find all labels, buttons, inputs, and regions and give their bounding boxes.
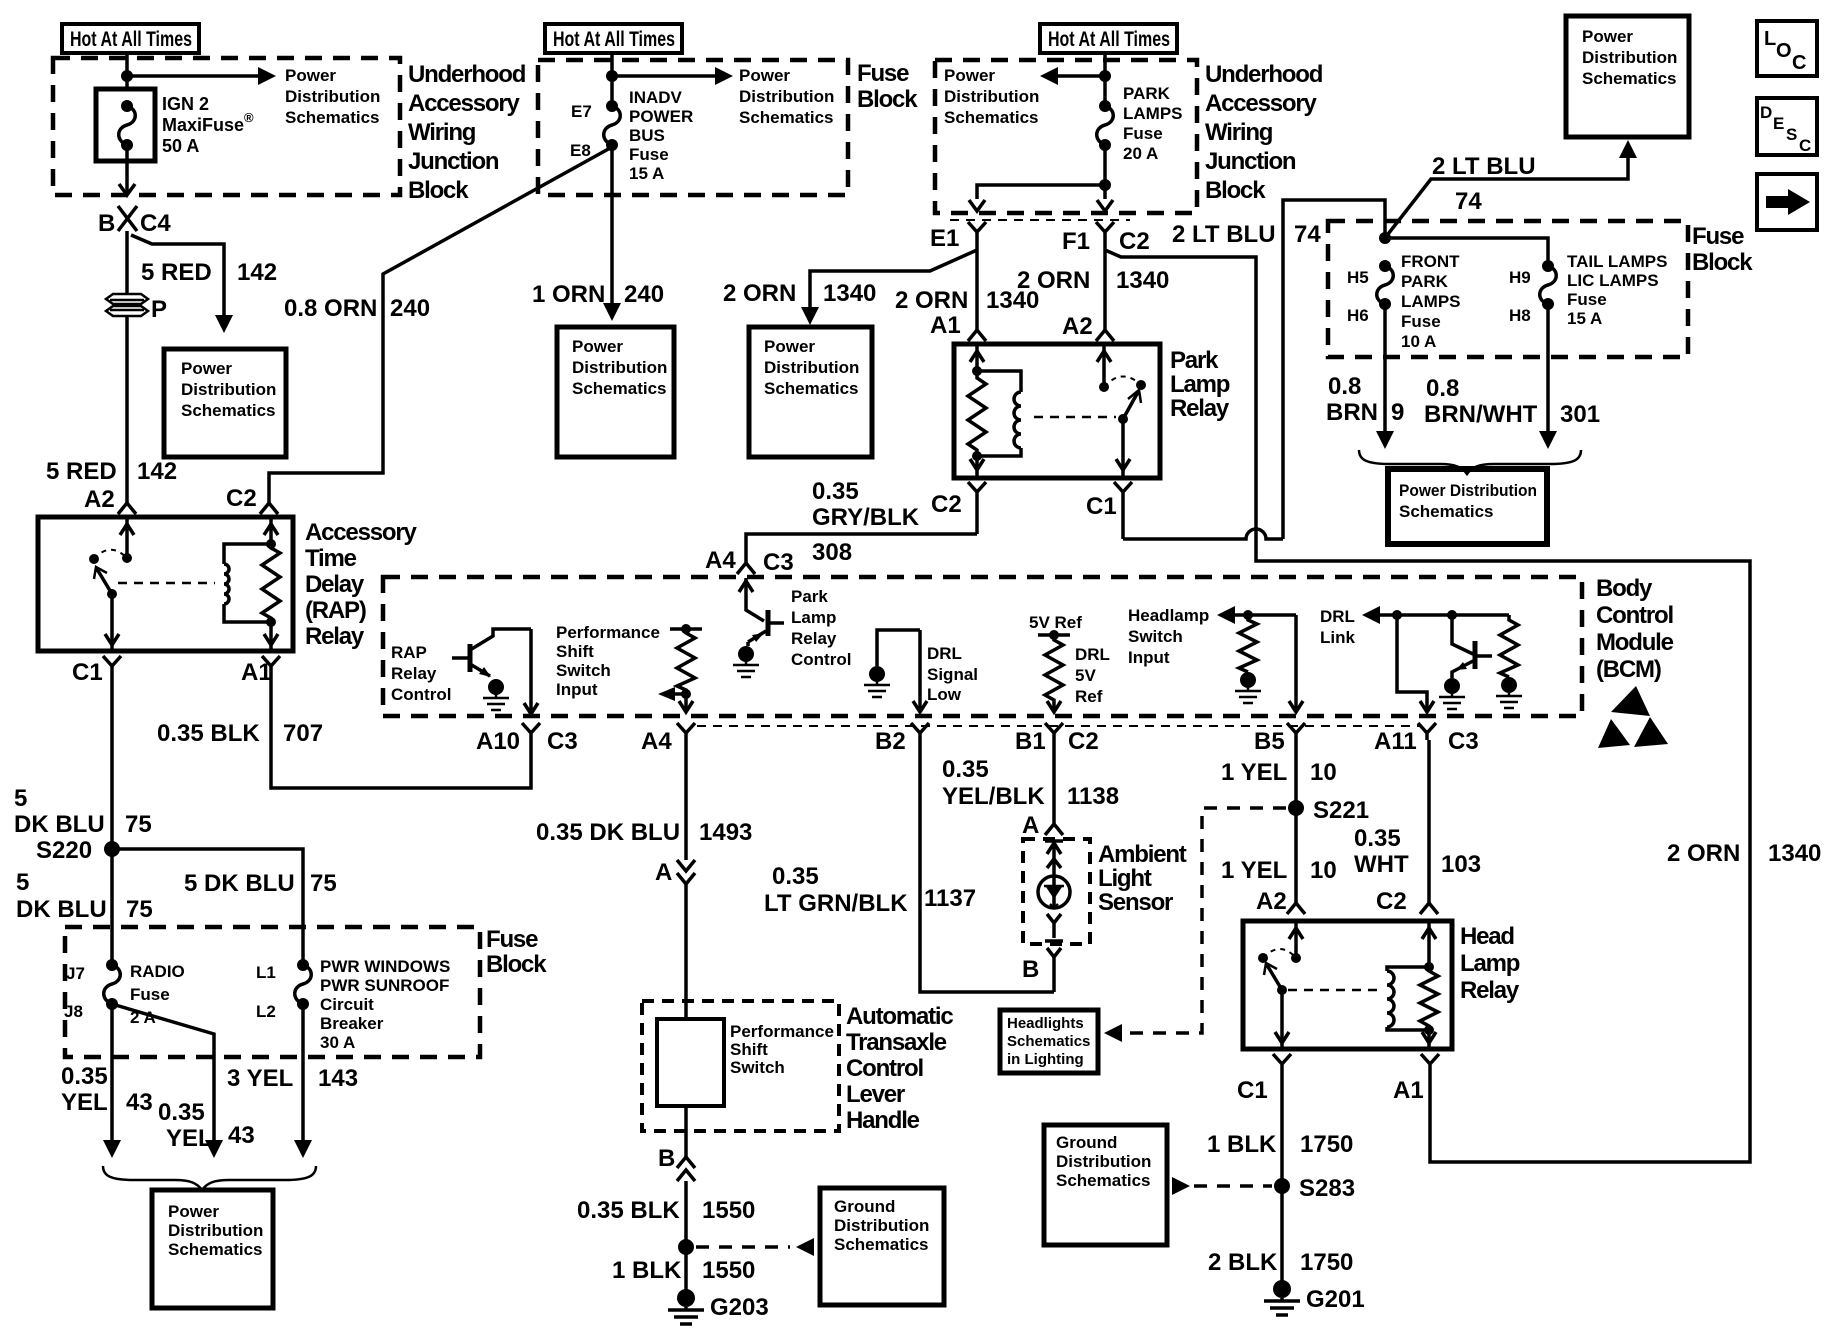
wire 0.8 ORN 240 diagonal from E8 to RAP relay C2 — [269, 147, 612, 503]
wire park lamps fuse output split to E1 and F1 — [969, 145, 1113, 211]
svg-text:B1: B1 — [1015, 728, 1046, 755]
svg-text:Park: Park — [791, 587, 828, 606]
svg-text:C4: C4 — [140, 210, 171, 237]
svg-text:Distribution: Distribution — [168, 1221, 263, 1240]
wire coil low side to A1 — [1422, 1025, 1436, 1049]
svg-text:B: B — [98, 210, 115, 237]
svg-text:Ref: Ref — [1075, 687, 1103, 706]
wire A2 entry to switch common — [120, 517, 134, 563]
svg-text:5V: 5V — [1075, 666, 1096, 685]
svg-text:B: B — [1022, 956, 1039, 983]
label 0.8 BRN 9 — [1326, 373, 1404, 426]
connector A of ambient light sensor — [1022, 812, 1063, 839]
svg-text:H5: H5 — [1347, 268, 1369, 287]
svg-text:Block: Block — [408, 177, 469, 204]
resistor (DRL 5V ref) — [1045, 635, 1063, 712]
svg-text:43: 43 — [228, 1122, 255, 1149]
svg-text:H8: H8 — [1509, 306, 1531, 325]
label 0.35 YEL/BLK 1138 — [942, 756, 1119, 810]
svg-text:INADV: INADV — [629, 88, 683, 107]
relay K2 Park Lamp Relay box — [954, 344, 1160, 478]
wire from performance shift switch B — [684, 1106, 688, 1158]
wire coil low side to C2 — [970, 451, 984, 476]
svg-text:D: D — [1760, 103, 1772, 122]
svg-text:2 ORN: 2 ORN — [723, 280, 796, 307]
svg-text:YEL/BLK: YEL/BLK — [942, 783, 1045, 810]
ground (headlamp switch input) — [1235, 672, 1261, 703]
label Park Lamp Relay — [1170, 347, 1230, 422]
svg-text:Control: Control — [391, 685, 451, 704]
svg-text:1 ORN: 1 ORN — [532, 281, 605, 308]
svg-text:Ambient: Ambient — [1098, 841, 1187, 868]
svg-text:in Lighting: in Lighting — [1007, 1051, 1084, 1068]
connector A of performance shift switch — [655, 859, 695, 886]
svg-text:C3: C3 — [763, 549, 794, 576]
label 0.35 YEL 43 (second) — [158, 1099, 255, 1152]
svg-text:Switch: Switch — [556, 661, 611, 680]
svg-text:Headlights: Headlights — [1007, 1015, 1084, 1032]
svg-text:Switch: Switch — [1128, 627, 1183, 646]
underhood accessory wiring junction block (right) dashed box — [935, 60, 1197, 213]
svg-text:1 BLK: 1 BLK — [1207, 1131, 1277, 1158]
svg-text:Shift: Shift — [730, 1040, 768, 1059]
svg-text:Distribution: Distribution — [944, 87, 1039, 106]
label Underhood Accessory Wiring Junction Block (left) — [408, 61, 526, 204]
wire 2 ORN 1340 from F1/C2 down to park lamp relay A2 — [1103, 250, 1107, 330]
wire arrow to Power Distribution Schematics (left box) — [127, 67, 276, 85]
svg-text:Power: Power — [739, 66, 790, 85]
svg-text:Wiring: Wiring — [1205, 119, 1273, 146]
svg-text:Fuse: Fuse — [486, 926, 538, 953]
wire ignition feed down to splice P — [125, 231, 129, 294]
wire 2 ORN 1340 from E1 to power distribution box — [801, 250, 977, 325]
label 0.35 YEL 43 (first) — [61, 1063, 153, 1116]
label 2 ORN 1340 (to schematics box) — [723, 280, 876, 307]
svg-text:A4: A4 — [641, 728, 672, 755]
mechanical link blade to coil — [1288, 989, 1380, 992]
svg-text:30 A: 30 A — [320, 1033, 355, 1052]
svg-text:5: 5 — [14, 785, 27, 812]
wire headlamp switch input to B5 — [1289, 615, 1303, 712]
svg-text:BRN: BRN — [1326, 399, 1378, 426]
svg-text:Sensor: Sensor — [1098, 889, 1173, 916]
svg-text:O: O — [1776, 40, 1792, 62]
svg-text:DK BLU: DK BLU — [16, 896, 107, 923]
svg-text:Schematics: Schematics — [1007, 1033, 1090, 1050]
label FRONT PARK LAMPS Fuse 10 A — [1401, 252, 1461, 351]
svg-text:Delay: Delay — [305, 571, 365, 598]
wire C2 entry to coil — [264, 517, 278, 549]
svg-text:1750: 1750 — [1300, 1131, 1353, 1158]
svg-text:20 A: 20 A — [1123, 144, 1158, 163]
wire arrow to Power Distribution Schematics (right junction block) — [1040, 67, 1105, 85]
transistor Q1 RAP relay control driver — [452, 629, 531, 677]
svg-text:1550: 1550 — [702, 1257, 755, 1284]
svg-text:DK BLU: DK BLU — [14, 811, 105, 838]
svg-text:C1: C1 — [72, 659, 103, 686]
wire 2 ORN 1340 from E1 down to park lamp relay A1 — [975, 250, 979, 330]
svg-text:Distribution: Distribution — [739, 87, 834, 106]
wire C1 of park lamp relay to fuse block (hop over 2 ORN) — [1123, 529, 1283, 539]
svg-text:(RAP): (RAP) — [305, 597, 366, 624]
svg-text:3 YEL: 3 YEL — [227, 1065, 293, 1092]
svg-text:Junction: Junction — [408, 148, 499, 175]
svg-text:A10: A10 — [476, 728, 520, 755]
svg-text:74: 74 — [1455, 188, 1482, 215]
svg-text:143: 143 — [318, 1065, 358, 1092]
svg-text:10: 10 — [1310, 857, 1337, 884]
svg-text:A: A — [655, 859, 672, 886]
svg-text:FRONT: FRONT — [1401, 252, 1460, 271]
label 5 DK BLU 75 (branch) — [184, 870, 337, 897]
svg-text:LT GRN/BLK: LT GRN/BLK — [764, 890, 908, 917]
wire fuse output to junction block edge — [119, 145, 135, 195]
junction dot — [121, 70, 133, 82]
wire 0.35 YEL 43 from J8 diagonal branch — [112, 1004, 223, 1158]
wire 0.35 LT GRN/BLK 1137 from B2 down and over to sensor B — [920, 740, 1054, 992]
transistor Q2 park lamp relay control driver — [739, 578, 784, 642]
splice S220 — [36, 837, 120, 864]
svg-text:Power: Power — [285, 66, 336, 85]
node Hot At All Times (right) — [1040, 24, 1177, 53]
dashed reference wire from ground distribution schematics to S283 — [1172, 1177, 1272, 1195]
svg-text:Schematics: Schematics — [1056, 1171, 1151, 1190]
svg-text:1493: 1493 — [699, 819, 752, 846]
svg-text:Schematics: Schematics — [572, 379, 667, 398]
svg-text:LAMPS: LAMPS — [1123, 104, 1183, 123]
svg-text:A1: A1 — [1393, 1077, 1424, 1104]
svg-text:Schematics: Schematics — [739, 108, 834, 127]
svg-text:®: ® — [244, 110, 254, 125]
switch travel arc — [1263, 949, 1296, 958]
svg-text:Distribution: Distribution — [572, 358, 667, 377]
connector B of performance shift switch — [658, 1145, 695, 1181]
label 1 YEL 10 (above S221) — [1221, 759, 1337, 786]
wire performance shift switch input to A4 — [679, 694, 693, 712]
svg-text:Input: Input — [1128, 648, 1170, 667]
label 0.8 ORN 240 — [284, 295, 430, 322]
connector E1 — [930, 222, 986, 252]
connector A10 / C3 at BCM — [476, 723, 578, 755]
switch blade — [1118, 390, 1141, 424]
svg-text:Distribution: Distribution — [834, 1216, 929, 1235]
svg-text:0.35 BLK: 0.35 BLK — [577, 1197, 680, 1224]
ground G203 — [668, 1289, 769, 1324]
svg-text:75: 75 — [125, 811, 152, 838]
splice S283 — [1274, 1175, 1355, 1202]
DRL link sense arrow and rail — [1362, 606, 1509, 624]
wire 0.35 BLK 1550 to splice — [684, 1181, 688, 1247]
node forward arrow legend box — [1757, 174, 1817, 230]
svg-text:5 DK BLU: 5 DK BLU — [184, 870, 295, 897]
svg-text:Headlamp: Headlamp — [1128, 606, 1209, 625]
wire to performance shift switch — [684, 884, 688, 1019]
svg-text:L2: L2 — [256, 1002, 276, 1021]
svg-text:142: 142 — [237, 259, 277, 286]
svg-text:Performance: Performance — [556, 623, 660, 642]
svg-text:5V Ref: 5V Ref — [1029, 613, 1082, 632]
svg-text:(BCM): (BCM) — [1596, 656, 1661, 683]
svg-text:E: E — [1773, 114, 1784, 133]
svg-text:A: A — [1022, 812, 1039, 839]
svg-text:Accessory: Accessory — [305, 519, 417, 546]
dashed reference wire from S221 to headlights schematics — [1104, 808, 1286, 1042]
label Underhood Accessory Wiring Junction Block (right) — [1205, 61, 1323, 204]
label 5 RED 142 (lower) — [46, 458, 177, 485]
svg-text:Schematics: Schematics — [834, 1235, 929, 1254]
svg-text:Accessory: Accessory — [408, 90, 520, 117]
svg-text:Shift: Shift — [556, 642, 594, 661]
svg-text:P: P — [151, 296, 167, 323]
svg-text:Hot At All Times: Hot At All Times — [553, 28, 675, 51]
svg-text:RADIO: RADIO — [130, 962, 185, 981]
brace grouping the three feeds — [103, 1166, 316, 1190]
connector A2 of park lamp relay — [1062, 313, 1114, 341]
resistor (park lamp relay coil suppression) — [968, 371, 986, 456]
svg-text:PWR SUNROOF: PWR SUNROOF — [320, 976, 449, 995]
switch travel arc — [94, 550, 127, 559]
svg-text:5 RED: 5 RED — [141, 259, 212, 286]
svg-text:Module: Module — [1596, 629, 1674, 656]
resistor (headlamp switch input) — [1239, 615, 1257, 672]
svg-text:IGN 2: IGN 2 — [162, 94, 209, 114]
label 1 BLK 1750 — [1207, 1131, 1353, 1158]
connector A1 of park lamp relay — [930, 312, 986, 341]
svg-text:Fuse: Fuse — [1123, 124, 1163, 143]
wire 2 LT BLU 74 from park lamp relay C1 up to fuse block feed — [1283, 200, 1385, 539]
svg-text:15 A: 15 A — [629, 164, 664, 183]
svg-text:Fuse: Fuse — [1567, 290, 1607, 309]
svg-text:0.35: 0.35 — [1354, 825, 1401, 852]
svg-text:DRL: DRL — [927, 644, 962, 663]
wire arrow to Power Distribution Schematics (middle) — [612, 67, 733, 85]
svg-text:Underhood: Underhood — [1205, 61, 1323, 88]
label RAP Relay Control — [391, 643, 451, 704]
ground (DRL signal low) — [864, 630, 920, 697]
svg-text:Schematics: Schematics — [285, 108, 380, 127]
svg-text:1 BLK: 1 BLK — [612, 1257, 682, 1284]
wire 0.35 BLK 707 from A1 to BCM A10 — [271, 690, 531, 788]
svg-text:H6: H6 — [1347, 306, 1369, 325]
svg-text:Junction: Junction — [1205, 148, 1296, 175]
svg-text:Input: Input — [556, 680, 598, 699]
svg-text:Fuse: Fuse — [1692, 223, 1744, 250]
node Hot At All Times (middle) — [545, 24, 682, 53]
wire from Hot At All Times into fuse block — [610, 53, 614, 106]
fuse block (right) dashed box — [1328, 221, 1688, 357]
fuse TAIL LAMPS LIC LAMPS 15 A pins H9 H8 — [1509, 260, 1556, 325]
svg-text:Power: Power — [764, 337, 815, 356]
label Fuse Block (middle top) — [857, 60, 918, 113]
svg-text:C3: C3 — [547, 728, 578, 755]
svg-text:Power: Power — [572, 337, 623, 356]
BCM connector face line — [697, 725, 1421, 727]
svg-text:74: 74 — [1294, 221, 1321, 248]
connector A2 of head lamp relay — [1256, 888, 1305, 915]
svg-text:2 ORN: 2 ORN — [895, 287, 968, 314]
underhood accessory wiring junction block (left) dashed box — [53, 58, 400, 195]
svg-text:S283: S283 — [1299, 1175, 1355, 1202]
mechanical link blade to coil — [118, 582, 215, 585]
svg-text:Switch: Switch — [730, 1058, 785, 1077]
svg-text:Schematics: Schematics — [764, 379, 859, 398]
svg-text:0.8: 0.8 — [1328, 373, 1361, 400]
svg-text:L: L — [1764, 28, 1776, 50]
svg-text:Circuit: Circuit — [320, 995, 374, 1014]
svg-text:RAP: RAP — [391, 643, 427, 662]
label 0.8 BRN/WHT 301 — [1424, 375, 1600, 428]
svg-text:0.35: 0.35 — [61, 1063, 108, 1090]
node Hot At All Times (left) — [62, 24, 199, 53]
svg-text:C2: C2 — [226, 485, 257, 512]
svg-text:1750: 1750 — [1300, 1249, 1353, 1276]
wire from Hot At All Times into junction block — [1103, 53, 1107, 106]
label Park Lamp Relay Control — [791, 587, 851, 669]
label 2 LT BLU 74 (left of fuse block) — [1172, 221, 1321, 248]
svg-text:J7: J7 — [66, 964, 85, 983]
svg-text:1137: 1137 — [924, 885, 976, 912]
label INADV POWER BUS Fuse 15 A — [629, 88, 693, 183]
svg-text:1340: 1340 — [1116, 267, 1169, 294]
svg-text:Power: Power — [1582, 27, 1633, 46]
wire from Hot At All Times into junction block — [125, 53, 129, 89]
dashed reference wire to ground distribution schematics (left) — [696, 1238, 814, 1256]
svg-text:E1: E1 — [930, 225, 959, 252]
svg-text:Relay: Relay — [791, 629, 837, 648]
ground (park lamp driver emitter) — [733, 642, 759, 677]
junction dot — [606, 70, 618, 82]
svg-text:Automatic: Automatic — [846, 1003, 953, 1030]
connector C4 pin B inline connector — [98, 206, 171, 237]
svg-text:Underhood: Underhood — [408, 61, 526, 88]
svg-text:S: S — [1786, 125, 1797, 144]
power distribution schematics box (bottom left) — [152, 1190, 273, 1308]
fuse F1 IGN 2 MaxiFuse 50 A — [96, 89, 155, 161]
svg-text:J8: J8 — [64, 1002, 83, 1021]
node LOC legend box — [1757, 21, 1817, 76]
svg-text:103: 103 — [1441, 851, 1481, 878]
svg-text:Control: Control — [846, 1055, 923, 1082]
switch S1 Performance Shift Switch (dashed housing) — [642, 1001, 839, 1131]
svg-text:Schematics: Schematics — [1582, 69, 1677, 88]
coil (RAP relay winding) — [224, 544, 271, 622]
svg-text:Wiring: Wiring — [408, 119, 476, 146]
label DRL 5V Ref — [1075, 645, 1110, 706]
svg-text:A4: A4 — [705, 547, 736, 574]
ground distribution schematics box (right) — [1044, 1125, 1167, 1245]
svg-text:707: 707 — [283, 720, 323, 747]
label 5 RED 142 (upper) — [141, 259, 277, 286]
svg-text:Relay: Relay — [391, 664, 437, 683]
power distribution schematics box (below 240) — [557, 327, 674, 457]
svg-text:LAMPS: LAMPS — [1401, 292, 1461, 311]
svg-text:G203: G203 — [710, 1294, 769, 1321]
svg-text:Block: Block — [1205, 177, 1266, 204]
wire 2 BLK 1750 from S283 to G201 — [1280, 1186, 1284, 1281]
wire 5 RED 142 down to RAP relay A2 — [125, 316, 129, 503]
svg-text:C1: C1 — [1086, 493, 1117, 520]
splice junction to ground distribution — [678, 1239, 694, 1255]
label Headlamp Switch Input — [1128, 606, 1209, 667]
svg-text:S220: S220 — [36, 837, 92, 864]
svg-text:Control: Control — [791, 650, 851, 669]
label 2 ORN 1340 (right side) — [1667, 840, 1821, 867]
relay K3 Head Lamp Relay box — [1243, 921, 1452, 1049]
svg-text:Transaxle: Transaxle — [846, 1029, 947, 1056]
svg-text:B2: B2 — [875, 728, 906, 755]
wire 2 LT BLU 74 branch to power distribution schematics (top right) — [1385, 140, 1637, 238]
label 0.35 GRY/BLK 308 — [812, 478, 920, 566]
transistor Q3 DRL link driver — [1452, 615, 1492, 678]
node 5V Ref rail — [1029, 613, 1082, 640]
svg-text:H9: H9 — [1509, 268, 1531, 287]
photodiode sensor element — [1038, 841, 1070, 992]
wire DRL signal low to B2 — [913, 630, 927, 712]
switch contact dot — [1258, 953, 1268, 963]
wire 1 BLK 1750 from C1 to S283 — [1280, 1090, 1284, 1186]
resistor (RAP relay coil suppression) — [262, 544, 280, 622]
switch blade — [94, 567, 117, 599]
svg-text:75: 75 — [310, 870, 337, 897]
wire 0.35 GRY/BLK 308 from C2 to BCM A4 — [746, 534, 977, 563]
label 2 ORN 1340 (at A2) — [1017, 267, 1169, 294]
svg-text:Schematics: Schematics — [1399, 502, 1494, 521]
headlamp switch input sense arrow and node — [1217, 606, 1296, 624]
svg-text:Ground: Ground — [1056, 1133, 1117, 1152]
svg-text:1138: 1138 — [1067, 783, 1119, 810]
svg-text:Hot At All Times: Hot At All Times — [1048, 28, 1170, 51]
svg-text:C1: C1 — [1237, 1077, 1268, 1104]
label 1 YEL 10 (below S221) — [1221, 857, 1337, 884]
wire 1 ORN 240 down to power distribution — [603, 145, 621, 321]
svg-text:240: 240 — [390, 295, 430, 322]
fuse PARK LAMPS 20 A — [1097, 100, 1114, 151]
connector B1 / C2 at BCM — [1015, 723, 1099, 755]
svg-text:Fuse: Fuse — [130, 985, 170, 1004]
wire 3 YEL 143 from L2 — [294, 1004, 312, 1158]
svg-text:S221: S221 — [1313, 797, 1369, 824]
label 5 DK BLU 75 (above S220) — [14, 785, 152, 838]
svg-text:BRN/WHT: BRN/WHT — [1424, 401, 1538, 428]
connector A1 of head lamp relay — [1393, 1054, 1439, 1104]
svg-text:MaxiFuse: MaxiFuse — [162, 115, 244, 135]
svg-text:2 LT BLU: 2 LT BLU — [1432, 153, 1536, 180]
switch contact dot — [89, 554, 99, 564]
svg-text:C2: C2 — [1068, 728, 1099, 755]
label 0.35 BLK 1550 — [577, 1197, 755, 1224]
splice P pass-through grommet — [106, 294, 167, 323]
connector C1 of park lamp relay — [1086, 482, 1132, 539]
svg-text:1 YEL: 1 YEL — [1221, 759, 1287, 786]
ground (DRL link transistor) — [1439, 678, 1465, 709]
svg-text:Fuse: Fuse — [857, 60, 909, 87]
splice S221 — [1288, 797, 1369, 824]
svg-text:Block: Block — [486, 951, 547, 978]
ground distribution schematics box (middle) — [820, 1188, 944, 1305]
svg-text:DRL: DRL — [1075, 645, 1110, 664]
svg-text:A2: A2 — [1062, 313, 1093, 340]
svg-text:Power Distribution: Power Distribution — [1399, 481, 1537, 500]
svg-text:Distribution: Distribution — [181, 380, 276, 399]
ground G201 — [1264, 1280, 1365, 1315]
fuse block (bottom left) dashed box — [65, 927, 480, 1057]
wire RAP relay control output to A10 — [524, 629, 538, 714]
label 2 ORN 1340 (at A1) — [895, 287, 1039, 314]
svg-text:0.35 DK BLU: 0.35 DK BLU — [536, 819, 680, 846]
svg-text:E7: E7 — [571, 102, 592, 121]
svg-text:Distribution: Distribution — [285, 87, 380, 106]
svg-text:Power: Power — [181, 359, 232, 378]
